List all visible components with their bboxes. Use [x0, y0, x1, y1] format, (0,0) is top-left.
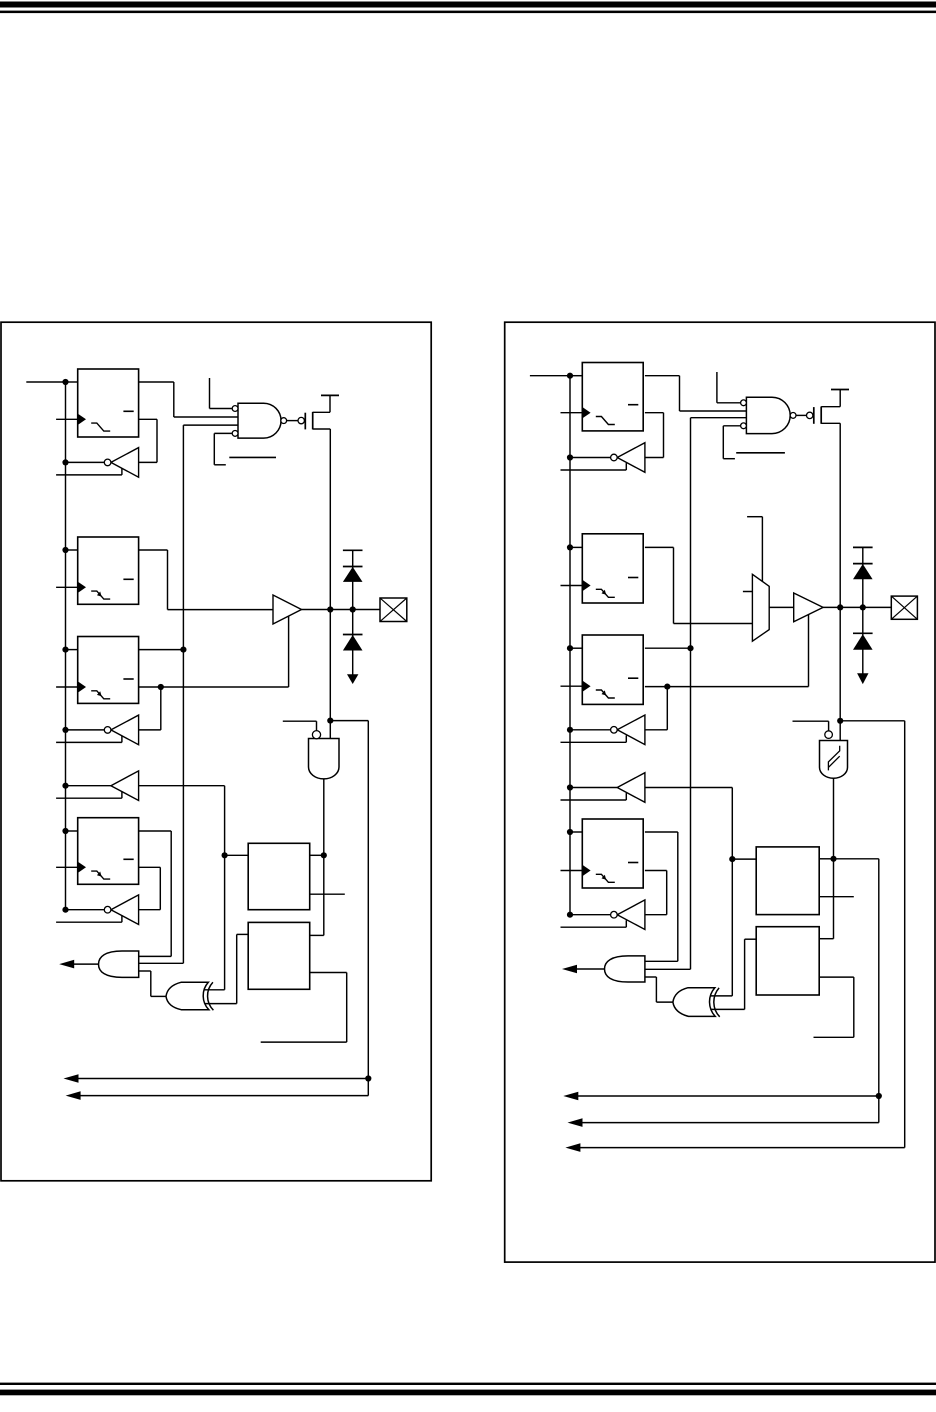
footer thin rule — [0, 1383, 936, 1385]
wire data input B3 — [570, 546, 582, 548]
transistor Q1 gate bubble — [298, 417, 304, 423]
clock edge marker B1 — [78, 582, 86, 593]
node C1 Q2 — [158, 684, 164, 690]
wire N3 output — [66, 785, 111, 787]
register A2 — [582, 363, 643, 431]
label dash B1 — [123, 578, 133, 580]
wire F3 Q to and gate — [645, 831, 678, 833]
register A1 — [78, 369, 139, 437]
label dash F3 — [628, 862, 638, 864]
wire L4 output — [819, 976, 854, 978]
wire clock input C1 — [56, 686, 78, 688]
wire L4 left input from XOR branch — [745, 938, 757, 940]
label rule right of L1 — [310, 893, 345, 895]
nand U5 input bubble pin4 — [741, 423, 747, 429]
wire read-bus stub N4 — [56, 921, 122, 923]
VSS arrow (pad clamp) — [347, 674, 358, 684]
wire C1 Q2 enable row — [139, 686, 289, 688]
wire data input C1 — [66, 649, 78, 651]
wire U3 input3 from XOR — [139, 970, 151, 972]
falling-edge symbol C1 — [91, 691, 110, 699]
nand U5 output bubble — [790, 413, 796, 419]
wire N5 output — [570, 457, 611, 459]
wire read node vertical (right) — [731, 788, 733, 996]
wire pad read branch (right) — [840, 720, 905, 722]
node data C3 — [567, 645, 573, 651]
falling-edge symbol F3 — [596, 874, 615, 882]
wire U8 input1 — [711, 995, 733, 997]
wire B2 output to pad — [302, 609, 381, 611]
nand U5 input bubble pin1 — [741, 400, 747, 406]
wire N1 output — [66, 461, 105, 463]
latch L2 — [248, 922, 310, 989]
wire U1 pin4 — [214, 432, 232, 434]
wire N3 input from pad-read node — [139, 785, 225, 787]
node data B1 — [62, 547, 68, 553]
register F3 — [582, 819, 643, 888]
wire read-bus stub N8 — [561, 926, 627, 928]
clock edge marker B3 — [582, 580, 590, 591]
VCC bar (pad clamp, right) — [853, 546, 873, 548]
transistor Q1 gate bar — [304, 413, 306, 430]
wire data bus vertical — [65, 382, 67, 910]
label dash A1 — [123, 410, 133, 412]
wire U1 output to Q1 gate — [287, 420, 298, 422]
node N4 output — [62, 907, 68, 913]
wire read-bus stub N1 — [56, 474, 122, 476]
label rule below U5 — [736, 452, 785, 454]
transistor Q2 gate bar — [813, 407, 815, 424]
nand U6 input bubble — [825, 731, 833, 739]
node pad read branch — [327, 718, 333, 724]
wire clock input C3 — [561, 685, 583, 687]
node N1 output — [62, 459, 68, 465]
wire clock input B1 — [56, 586, 78, 588]
label dash C3 — [628, 677, 638, 679]
xor gate U8 second arc — [714, 988, 720, 1017]
wire L3 node to arrows — [834, 858, 879, 860]
label rule below U1 — [229, 456, 276, 458]
wire L2 output — [310, 972, 347, 974]
inverter N2 — [111, 715, 139, 745]
node C3 Q2 — [664, 684, 670, 690]
inverter N4 bubble — [104, 906, 111, 913]
register B1 — [78, 537, 139, 604]
inverter N1 bubble — [104, 459, 111, 466]
node pad drive (right) — [837, 604, 843, 610]
wire U5 pin3 from direction bus — [691, 417, 747, 419]
wire bus-out arrow 1 (right) — [570, 1095, 879, 1097]
wire N7 input from pad-read node — [645, 787, 732, 789]
nand U1 input bubble pin4 — [232, 431, 238, 437]
wire B1 Q to output buffer — [139, 549, 168, 551]
inverter N4 — [111, 895, 139, 925]
wire U5 pin1 — [716, 372, 718, 403]
wire read node vertical — [224, 786, 226, 990]
wire N6 output — [570, 729, 611, 731]
pad P2 — [891, 596, 917, 619]
wire M1 output — [769, 606, 794, 608]
wire Q1 drain to pad node — [313, 428, 331, 430]
wire clock input F1 — [56, 866, 78, 868]
wire U4 input2 — [205, 1003, 237, 1005]
node N8 output — [567, 912, 573, 918]
footer thick rule — [0, 1390, 936, 1396]
inverter N7 — [617, 773, 645, 803]
wire C1 Q to direction bus — [139, 649, 184, 651]
node data F3 — [567, 829, 573, 835]
node N7 output — [567, 784, 573, 790]
wire U5 pin4 — [723, 425, 740, 427]
wire A1 Q2 to inverter N1 — [139, 418, 157, 420]
wire read-bus stub N7 — [561, 799, 627, 801]
wire C3 Q to direction bus — [645, 647, 691, 649]
and gate U3 body — [99, 951, 139, 977]
inverter N8 — [617, 900, 645, 930]
clock edge marker F1 — [78, 862, 86, 873]
register F1 — [78, 818, 139, 885]
falling-edge symbol B1 — [91, 591, 110, 599]
wire F1 Q to and gate — [139, 830, 172, 832]
nand U1 output bubble — [281, 418, 287, 424]
inverter N6 bubble — [611, 727, 618, 734]
VCC bar (pull-up) — [321, 394, 339, 396]
wire bus-out arrow 2 (right) — [574, 1122, 879, 1124]
wire Q2 source — [821, 406, 840, 408]
latch L1 — [248, 843, 310, 909]
wire read-bus stub N2 — [56, 741, 122, 743]
wire data input A1 — [66, 381, 78, 383]
wire U8 input2 — [711, 1008, 745, 1010]
wire clock input B3 — [561, 585, 583, 587]
node data A2 — [567, 373, 573, 379]
wire L3 right input — [819, 858, 833, 860]
diode D3 — [862, 547, 864, 607]
node read split — [222, 852, 228, 858]
falling-edge symbol A1 — [91, 423, 110, 431]
wire read-bus stub N6 — [561, 741, 627, 743]
node N3 output — [62, 783, 68, 789]
wire read to latch L3 — [732, 858, 756, 860]
inverter N2 bubble — [104, 727, 111, 734]
VCC bar (pad clamp) — [343, 549, 363, 551]
wire clock input A2 — [561, 412, 583, 414]
latch L3 — [756, 847, 819, 915]
wire Q2 drain to pad node — [821, 422, 840, 424]
wire F1 Q2 to inverter N4 — [139, 866, 161, 868]
wire U3 output arrow — [74, 963, 99, 965]
wire clock input F3 — [561, 870, 583, 872]
wire N7 output — [570, 787, 617, 789]
diode D1 — [352, 550, 354, 609]
wire data input C3 — [570, 647, 582, 649]
wire F3 Q2 to inverter N8 — [645, 870, 667, 872]
node U6 output to latch — [830, 856, 836, 862]
wire B2 enable — [288, 616, 290, 687]
wire A2 Q to NAND input 2 — [645, 375, 680, 377]
wire A1 data lead-in — [26, 381, 65, 383]
wire data input F3 — [570, 831, 582, 833]
label dash A2 — [628, 404, 638, 406]
node arrow1 (right) — [876, 1093, 882, 1099]
falling-edge symbol B3 — [596, 589, 615, 597]
inverter N5 bubble — [611, 454, 618, 461]
clock edge marker A1 — [78, 414, 86, 425]
wire L1 right input — [310, 854, 324, 856]
wire M1 select — [761, 517, 763, 582]
header thick rule — [0, 2, 936, 8]
inverter N5 — [617, 443, 645, 473]
wire clock input A1 — [56, 418, 78, 420]
node pad read branch (right) — [837, 718, 843, 724]
wire bus-out arrow 1 — [70, 1078, 368, 1080]
wire data input B1 — [66, 549, 78, 551]
wire U7 input2 from direction bus — [645, 968, 691, 970]
nand U6 (schmitt input buffer) body — [820, 741, 848, 779]
falling-edge symbol C3 — [596, 690, 615, 698]
nand U2 (input buffer) body — [309, 739, 340, 779]
wire U4 input1 — [204, 989, 224, 991]
right diagram frame — [505, 322, 935, 1262]
clock edge marker A2 — [582, 407, 590, 418]
VCC bar (pull-up, right) — [831, 389, 849, 391]
wire B4 output to pad — [823, 606, 891, 608]
clock edge marker C3 — [582, 681, 590, 692]
label dash F1 — [123, 858, 133, 860]
wire bus-out arrow 2 — [72, 1095, 368, 1097]
nand U2 input bubble — [312, 731, 320, 739]
wire L2 left input from XOR branch — [237, 933, 249, 935]
VSS arrow (pad clamp, right) — [857, 673, 868, 684]
wire read-bus stub N5 — [561, 469, 627, 471]
node U2 output to latch — [321, 852, 327, 858]
node pad diode (right) — [860, 604, 866, 610]
wire U2 enable input — [316, 721, 318, 730]
label rule right of L3 — [819, 896, 854, 898]
nand U1 body — [238, 403, 281, 438]
wire U7 output arrow — [577, 968, 605, 970]
xor gate U8 body — [673, 988, 715, 1017]
inverter N8 bubble — [611, 911, 618, 918]
node N5 output — [567, 454, 573, 460]
pad P1 — [380, 598, 407, 622]
transistor Q2 gate bubble — [807, 412, 813, 418]
wire direction bus vertical — [182, 425, 184, 963]
wire U3 input2 from direction bus — [139, 962, 184, 964]
latch L4 — [756, 927, 819, 995]
xor gate U4 body — [166, 982, 209, 1009]
wire N4 output — [66, 909, 105, 911]
wire pad read branch — [330, 720, 368, 722]
node data B3 — [567, 544, 573, 550]
wire U7 input3 from XOR — [645, 976, 657, 978]
node data A1 — [62, 379, 68, 385]
label dash M1 — [743, 591, 752, 593]
node pad drive — [327, 606, 333, 612]
and gate U7 body — [605, 956, 645, 982]
label dash B3 — [628, 577, 638, 579]
label dash C1 — [123, 678, 133, 680]
register B3 — [582, 534, 643, 603]
left diagram frame — [1, 322, 431, 1181]
diode D2 — [352, 610, 354, 676]
wire U6 output — [833, 778, 835, 938]
buffer B2 (output) — [273, 595, 302, 624]
node N2 output — [62, 727, 68, 733]
hysteresis symbol U6 — [828, 746, 839, 771]
wire B3 Q to mux — [645, 546, 674, 548]
header thin rule — [0, 11, 936, 14]
transistor Q1 channel — [312, 412, 314, 430]
wire B4 enable — [808, 614, 810, 686]
diode D4 — [862, 607, 864, 674]
transistor Q2 channel — [820, 407, 822, 424]
falling-edge symbol F1 — [91, 871, 110, 879]
wire U2 output — [323, 779, 325, 935]
wire U6 enable input — [828, 721, 830, 731]
wire C3 Q2 to inverter N6 — [666, 687, 668, 730]
wire data input A2 — [570, 375, 582, 377]
nand U5 body — [746, 397, 790, 433]
inverter N6 — [617, 715, 645, 745]
nand U1 input bubble pin1 — [232, 406, 238, 412]
node direction bus — [180, 647, 186, 653]
wire U5 output to Q2 gate — [796, 414, 807, 416]
clock edge marker C1 — [78, 681, 86, 692]
inverter N1 — [111, 448, 139, 478]
wire N2 output — [66, 729, 105, 731]
buffer B4 (output) — [794, 593, 823, 622]
wire U1 pin1 — [209, 378, 211, 409]
wire bus-out arrow 3 (right) — [572, 1147, 905, 1149]
wire U1 pin3 from direction bus — [183, 424, 238, 426]
inverter N3 — [111, 771, 139, 801]
wire A2 data lead-in — [530, 375, 570, 377]
xor gate U4 second arc — [208, 982, 214, 1010]
register C1 — [78, 637, 139, 704]
node data C1 — [62, 647, 68, 653]
wire direction bus vertical (right) — [690, 418, 692, 970]
clock edge marker F3 — [582, 865, 590, 876]
wire A2 Q2 to inverter N5 — [645, 412, 664, 414]
node read split (right) — [729, 856, 735, 862]
node data F1 — [62, 828, 68, 834]
wire Q1 source — [313, 411, 330, 413]
wire A1 Q to NAND input 2 — [139, 381, 174, 383]
mux M1 — [752, 574, 769, 641]
register C3 — [582, 635, 643, 704]
wire read-bus stub N3 — [56, 797, 122, 799]
wire read to latch L1 — [225, 854, 249, 856]
node pad diode — [350, 606, 356, 612]
node N6 output — [567, 727, 573, 733]
node direction bus (right) — [687, 645, 693, 651]
wire N8 output — [570, 914, 611, 916]
wire C3 Q2 enable row — [645, 686, 809, 688]
wire data input F1 — [66, 830, 78, 832]
wire C1 Q2 to inverter N2 — [160, 687, 162, 730]
node arrow1 — [365, 1075, 371, 1081]
wire data bus vertical (right) — [569, 376, 571, 915]
falling-edge symbol A2 — [596, 417, 615, 425]
